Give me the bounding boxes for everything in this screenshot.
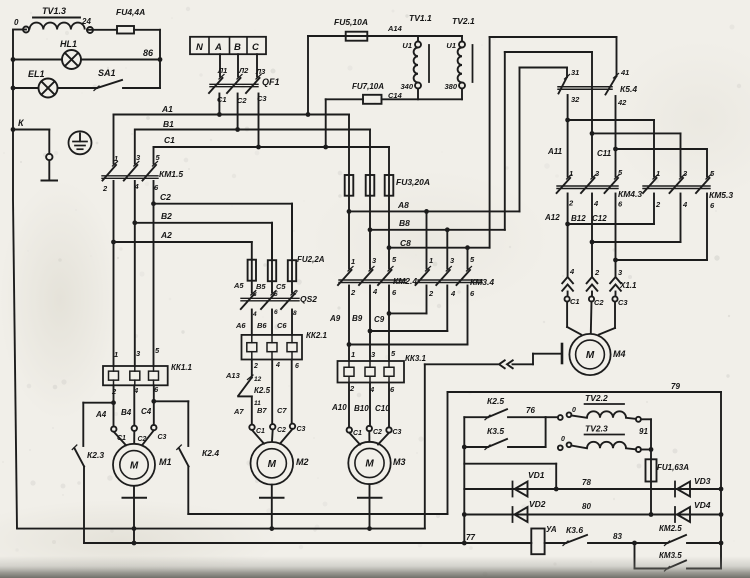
- svg-text:В9: В9: [352, 314, 363, 323]
- svg-text:2: 2: [350, 288, 356, 297]
- svg-text:В10: В10: [354, 404, 369, 413]
- svg-text:Л1: Л1: [217, 66, 227, 75]
- svg-text:HL1: HL1: [60, 39, 77, 49]
- svg-text:1: 1: [351, 350, 355, 359]
- svg-text:0: 0: [14, 18, 19, 27]
- svg-text:А2: А2: [160, 230, 172, 240]
- svg-text:31: 31: [571, 68, 579, 77]
- svg-text:6: 6: [274, 309, 278, 316]
- svg-text:4: 4: [569, 267, 575, 276]
- svg-text:VD4: VD4: [694, 500, 711, 510]
- svg-text:N: N: [196, 42, 204, 53]
- svg-text:С2: С2: [277, 427, 286, 434]
- svg-text:8: 8: [293, 310, 297, 317]
- svg-text:1: 1: [114, 350, 118, 359]
- svg-text:А13: А13: [225, 371, 241, 380]
- svg-text:4: 4: [682, 200, 688, 209]
- svg-text:А1: А1: [161, 104, 173, 114]
- svg-text:С5: С5: [276, 282, 286, 291]
- svg-text:С3: С3: [257, 94, 267, 103]
- svg-text:41: 41: [620, 68, 629, 77]
- svg-text:А4: А4: [95, 410, 107, 419]
- svg-text:К2.5: К2.5: [487, 396, 504, 406]
- svg-text:С2: С2: [138, 436, 147, 443]
- svg-text:2: 2: [428, 289, 434, 298]
- svg-text:QS2: QS2: [300, 294, 317, 304]
- svg-text:2: 2: [111, 387, 117, 396]
- svg-text:1: 1: [429, 256, 433, 265]
- svg-text:В7: В7: [257, 406, 267, 415]
- svg-text:FU1,63А: FU1,63А: [657, 463, 689, 472]
- svg-text:91: 91: [639, 427, 648, 436]
- svg-text:А12: А12: [544, 213, 560, 222]
- svg-text:FU3,20А: FU3,20А: [396, 177, 430, 187]
- svg-text:4: 4: [372, 287, 378, 296]
- svg-text:А7: А7: [233, 407, 244, 416]
- svg-text:1: 1: [351, 257, 355, 266]
- svg-text:SА1: SА1: [98, 68, 116, 78]
- svg-text:1: 1: [656, 169, 660, 178]
- svg-text:В1: В1: [163, 119, 174, 129]
- svg-text:К2.3: К2.3: [87, 450, 104, 460]
- svg-text:М: М: [365, 459, 374, 470]
- svg-text:К3.6: К3.6: [566, 525, 583, 535]
- svg-text:УА: УА: [546, 525, 557, 534]
- svg-text:VD2: VD2: [529, 499, 546, 509]
- svg-text:TV2.2: TV2.2: [585, 393, 608, 403]
- svg-text:32: 32: [571, 95, 580, 104]
- svg-text:2: 2: [349, 384, 355, 393]
- svg-text:QF1: QF1: [262, 77, 280, 87]
- svg-text:А9: А9: [329, 314, 341, 323]
- svg-text:FU4,4А: FU4,4А: [116, 7, 145, 17]
- svg-text:В12: В12: [571, 214, 586, 223]
- svg-text:С14: С14: [388, 91, 403, 100]
- svg-text:А8: А8: [397, 200, 409, 210]
- svg-text:В: В: [234, 42, 241, 53]
- svg-text:С3: С3: [393, 429, 402, 436]
- svg-text:С: С: [252, 42, 259, 53]
- svg-text:С12: С12: [592, 214, 607, 223]
- svg-text:4: 4: [369, 385, 375, 394]
- svg-text:TV1.1: TV1.1: [409, 13, 432, 23]
- svg-text:М2: М2: [296, 457, 309, 467]
- svg-text:С1: С1: [353, 430, 362, 437]
- svg-text:С7: С7: [277, 406, 287, 415]
- svg-text:24: 24: [81, 17, 91, 26]
- svg-text:КМ3.4: КМ3.4: [470, 277, 494, 287]
- svg-text:VD3: VD3: [694, 476, 711, 486]
- svg-text:0: 0: [572, 407, 576, 414]
- svg-text:4: 4: [275, 362, 280, 369]
- svg-text:Х1.1: Х1.1: [619, 281, 637, 290]
- svg-text:С6: С6: [277, 321, 287, 330]
- svg-text:С1: С1: [217, 95, 227, 104]
- svg-text:U1: U1: [402, 41, 412, 50]
- svg-text:А11: А11: [547, 147, 563, 156]
- svg-text:TV2.1: TV2.1: [452, 16, 475, 26]
- svg-text:2: 2: [655, 200, 661, 209]
- svg-text:340: 340: [400, 82, 413, 91]
- svg-text:FU2,2А: FU2,2А: [297, 255, 325, 264]
- svg-text:TV1.3: TV1.3: [42, 6, 66, 16]
- svg-text:С1: С1: [570, 297, 580, 306]
- svg-text:U1: U1: [446, 41, 456, 50]
- svg-text:М: М: [586, 350, 595, 361]
- svg-text:5: 5: [274, 291, 278, 298]
- svg-text:4: 4: [133, 386, 139, 395]
- svg-text:12: 12: [254, 376, 262, 383]
- svg-text:В8: В8: [399, 218, 410, 228]
- svg-text:КК2.1: КК2.1: [306, 331, 328, 340]
- svg-text:83: 83: [613, 532, 622, 541]
- svg-text:С10: С10: [375, 404, 390, 413]
- svg-text:2: 2: [253, 363, 258, 370]
- svg-text:77: 77: [466, 533, 475, 542]
- svg-text:М: М: [268, 459, 277, 470]
- svg-text:М1: М1: [159, 457, 172, 467]
- svg-text:В5: В5: [256, 282, 266, 291]
- svg-text:86: 86: [143, 48, 154, 58]
- svg-text:КМ1.5: КМ1.5: [159, 169, 183, 179]
- svg-text:С9: С9: [374, 315, 385, 324]
- svg-text:КМ4.3: КМ4.3: [618, 189, 642, 199]
- svg-text:1: 1: [114, 154, 118, 163]
- svg-text:С2: С2: [160, 192, 171, 202]
- svg-text:3: 3: [253, 291, 257, 298]
- svg-text:TV2.3: TV2.3: [585, 424, 608, 434]
- svg-text:КК3.1: КК3.1: [405, 354, 427, 363]
- svg-text:К2.4: К2.4: [202, 448, 219, 458]
- svg-text:4: 4: [593, 199, 599, 208]
- svg-text:2: 2: [568, 199, 574, 208]
- svg-text:4: 4: [134, 182, 140, 191]
- svg-text:М3: М3: [393, 457, 406, 467]
- svg-text:С2: С2: [237, 96, 247, 105]
- svg-text:FU5,10А: FU5,10А: [334, 17, 368, 27]
- svg-text:КМ2.5: КМ2.5: [659, 524, 682, 533]
- svg-text:79: 79: [671, 382, 680, 391]
- svg-text:С3: С3: [618, 298, 628, 307]
- svg-text:78: 78: [582, 478, 591, 487]
- svg-text:К2.5: К2.5: [254, 386, 271, 395]
- svg-text:А: А: [214, 42, 222, 53]
- svg-text:В4: В4: [121, 408, 132, 417]
- svg-text:С2: С2: [594, 298, 604, 307]
- svg-text:FU7,10А: FU7,10А: [352, 82, 384, 91]
- svg-text:С3: С3: [158, 434, 167, 441]
- svg-text:КМ5.3: КМ5.3: [709, 190, 733, 200]
- svg-text:Л3: Л3: [255, 67, 266, 76]
- svg-text:К3.5: К3.5: [487, 426, 504, 436]
- svg-text:А6: А6: [235, 321, 246, 330]
- svg-text:Л2: Л2: [238, 66, 249, 75]
- svg-text:4: 4: [450, 289, 456, 298]
- svg-text:КК1.1: КК1.1: [171, 363, 193, 372]
- svg-text:А14: А14: [387, 24, 403, 33]
- svg-text:А10: А10: [331, 403, 347, 412]
- svg-text:КМ2.4: КМ2.4: [393, 276, 417, 286]
- svg-text:С2: С2: [373, 429, 382, 436]
- svg-text:С8: С8: [400, 238, 411, 248]
- svg-text:380: 380: [444, 82, 457, 91]
- svg-text:М: М: [130, 460, 139, 471]
- svg-text:С3: С3: [297, 426, 306, 433]
- svg-text:С1: С1: [256, 428, 265, 435]
- svg-text:С1: С1: [117, 435, 126, 442]
- svg-text:М4: М4: [613, 349, 626, 359]
- svg-text:С4: С4: [141, 407, 152, 416]
- svg-text:В2: В2: [161, 211, 172, 221]
- svg-text:80: 80: [582, 502, 591, 511]
- svg-text:К5.4: К5.4: [620, 84, 637, 94]
- svg-text:2: 2: [594, 268, 600, 277]
- svg-text:42: 42: [617, 98, 627, 107]
- svg-text:6: 6: [295, 363, 299, 370]
- svg-text:С11: С11: [597, 149, 612, 158]
- svg-text:С1: С1: [164, 135, 175, 145]
- svg-text:А5: А5: [233, 281, 244, 290]
- svg-text:ЕL1: ЕL1: [28, 69, 45, 79]
- svg-text:В6: В6: [257, 321, 267, 330]
- svg-text:VD1: VD1: [528, 470, 545, 480]
- svg-text:7: 7: [294, 290, 298, 297]
- svg-text:2: 2: [102, 184, 108, 193]
- svg-text:4: 4: [252, 311, 257, 318]
- svg-text:0: 0: [561, 436, 565, 443]
- svg-text:1: 1: [569, 169, 573, 178]
- svg-text:76: 76: [526, 406, 535, 415]
